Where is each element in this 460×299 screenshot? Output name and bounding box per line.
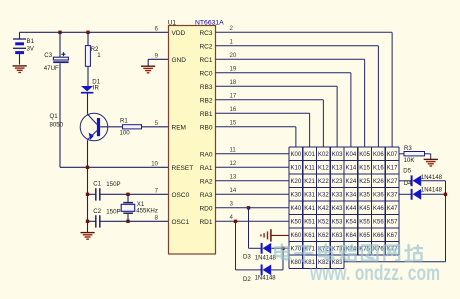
svg-text:1N4148: 1N4148 [421,187,443,193]
svg-text:150P: 150P [106,209,120,216]
svg-text:OSC0: OSC0 [172,192,190,199]
svg-text:K05: K05 [359,152,370,158]
svg-text:K13: K13 [332,166,343,172]
svg-text:K26: K26 [373,179,384,185]
svg-text:K52: K52 [318,220,329,226]
resistor R1 [120,117,169,136]
svg-text:IR: IR [93,85,100,92]
junction X1-OSC1 [126,220,129,223]
ground (R3) [424,159,438,166]
svg-text:K47: K47 [387,206,398,212]
svg-text:15: 15 [230,120,237,127]
capacitor C3 [44,32,69,167]
key row 4 labels K40-K47 [291,206,399,212]
diode D3 [243,243,289,262]
IC U1 left pin names and numbers [151,25,193,226]
svg-text:11: 11 [230,147,237,154]
svg-text:R1: R1 [120,117,128,124]
svg-text:K23: K23 [332,179,343,185]
svg-text:K56: K56 [373,220,384,226]
svg-text:K46: K46 [373,206,384,212]
svg-text:10: 10 [151,160,158,167]
wire RC2 to key column 6 [216,46,379,147]
diode D2 [243,265,283,284]
svg-text:K43: K43 [332,206,343,212]
key row 3 labels K30-K37 [291,193,399,199]
svg-text:3V: 3V [27,46,35,53]
svg-text:RA2: RA2 [200,178,213,185]
svg-text:12: 12 [230,160,237,167]
svg-text:K25: K25 [359,179,370,185]
svg-text:K31: K31 [304,193,315,199]
svg-text:K20: K20 [291,179,302,185]
svg-text:455KHz: 455KHz [136,207,158,214]
svg-text:14: 14 [230,187,237,194]
svg-text:K76: K76 [373,247,384,253]
svg-text:1N4148: 1N4148 [421,175,443,181]
junction RD0 branch [247,206,250,209]
wire RB1 to key column 1 [216,113,310,147]
wire GND pin [148,59,168,66]
svg-text:K17: K17 [387,166,398,172]
transistor Q1 [50,113,123,167]
svg-text:REM: REM [172,124,186,131]
svg-text:RC3: RC3 [199,30,212,37]
key row 1 labels K10-K17 [291,166,399,172]
svg-text:47UF: 47UF [44,65,59,72]
svg-text:RD0: RD0 [199,205,212,212]
key row 8 labels K80-K83 [291,260,344,266]
svg-text:K55: K55 [359,220,370,226]
wire ground rail [87,167,89,232]
svg-text:RB2: RB2 [200,97,213,104]
svg-text:K02: K02 [318,152,329,158]
junction RD1 branch [234,220,237,223]
key row 0 labels K00-K07 [291,152,399,158]
IC U1 right pin names and numbers [199,25,236,226]
svg-text:NT6631A: NT6631A [195,19,224,26]
svg-text:K03: K03 [332,152,343,158]
svg-text:16: 16 [230,106,237,113]
junction D4-D5 anodes [444,193,447,196]
capacitor C1 [88,181,169,201]
svg-text:RB3: RB3 [200,84,213,91]
wire RA0 to key row 0 [216,153,290,155]
junction D3-D2 anodes [281,247,284,250]
svg-text:17: 17 [230,93,237,100]
svg-text:K45: K45 [359,206,370,212]
wire D2 anode to node [282,248,284,270]
svg-text:K34: K34 [346,193,357,199]
svg-text:K67: K67 [387,233,398,239]
svg-text:OSC1: OSC1 [172,219,190,226]
svg-text:RC0: RC0 [199,70,212,77]
svg-text:1N4148: 1N4148 [255,276,277,282]
svg-text:K51: K51 [304,220,315,226]
svg-text:D3: D3 [243,254,251,261]
svg-text:K35: K35 [359,193,370,199]
junction C2-rail [86,220,89,223]
key row 2 labels K20-K27 [291,179,399,185]
svg-text:K64: K64 [346,233,357,239]
diode D5 [399,168,446,187]
svg-text:C2: C2 [93,208,101,215]
capacitor C2 [88,208,169,228]
svg-text:K04: K04 [346,152,357,158]
svg-text:K63: K63 [332,233,343,239]
wire RA3 to key row 3 [216,193,290,195]
svg-text:K21: K21 [304,179,315,185]
wire RC1 to key column 5 [216,59,365,147]
svg-text:K22: K22 [318,179,329,185]
svg-text:RA1: RA1 [200,165,213,172]
watermark [275,244,440,285]
diode D1 (IR LED) [81,78,101,113]
svg-text:K66: K66 [373,233,384,239]
ground (GND pin) [141,66,155,73]
svg-text:B1: B1 [27,38,35,45]
svg-text:Q1: Q1 [50,113,59,120]
wire RD1 to D2 [236,221,262,270]
svg-text:K36: K36 [373,193,384,199]
svg-text:K06: K06 [373,152,384,158]
svg-text:100: 100 [120,129,131,136]
svg-text:R3: R3 [404,145,412,152]
wire RA2 to key row 2 [216,180,290,182]
key matrix grid [289,147,399,268]
svg-text:K30: K30 [291,193,302,199]
wire RD0 to key row 4 [216,207,290,209]
svg-text:K16: K16 [373,166,384,172]
svg-text:RC1: RC1 [199,57,212,64]
wire RD1 to key row 5 [216,220,290,222]
svg-text:K32: K32 [318,193,329,199]
svg-text:RA0: RA0 [200,151,213,158]
junction C1-rail [86,193,89,196]
wire diode bus to key row 8 [344,181,446,262]
svg-text:K53: K53 [332,220,343,226]
svg-text:13: 13 [230,174,237,181]
wire RB0 to key column 0 [216,127,296,147]
svg-text:RD1: RD1 [199,219,212,226]
svg-text:10K: 10K [404,157,415,164]
svg-text:D4: D4 [404,180,412,187]
svg-text:150P: 150P [106,181,120,188]
wire RA1 to key row 1 [216,166,290,168]
svg-text:VDD: VDD [172,30,186,37]
junction node VDD-C3 [58,31,61,34]
svg-text:K11: K11 [305,166,316,172]
svg-text:RB0: RB0 [200,124,213,131]
svg-text:D2: D2 [243,276,251,283]
svg-text:RB1: RB1 [200,111,213,118]
wire RC3 to key column 7 [216,32,393,147]
svg-text:19: 19 [230,66,237,73]
svg-text:K61: K61 [304,233,315,239]
svg-text:1: 1 [97,52,101,59]
svg-text:RESET: RESET [172,165,194,172]
svg-text:K37: K37 [387,193,398,199]
resistor R3 [399,145,431,164]
svg-text:K50: K50 [291,220,302,226]
svg-text:K01: K01 [304,152,315,158]
svg-text:8050: 8050 [50,121,64,128]
svg-text:K00: K00 [291,152,302,158]
svg-text:K44: K44 [346,206,357,212]
svg-text:K41: K41 [304,206,315,212]
junction X1-OSC0 [126,193,129,196]
ground (key row 6) [261,229,289,241]
svg-text:K60: K60 [291,233,302,239]
svg-text:GND: GND [172,57,187,64]
svg-text:20: 20 [230,52,237,59]
svg-text:K54: K54 [346,220,357,226]
svg-text:K62: K62 [318,233,329,239]
diode D4 [399,180,446,200]
wire RC0 to key column 4 [216,73,351,147]
svg-text:K40: K40 [291,206,302,212]
svg-text:C3: C3 [44,52,52,59]
wire VDD rail [20,31,169,33]
svg-text:www. ondzz. com: www. ondzz. com [309,261,440,285]
svg-text:D5: D5 [403,168,411,175]
svg-text:RC2: RC2 [199,43,212,50]
key row 5 labels K50-K57 [291,220,399,226]
ground (battery negative) [13,66,27,73]
svg-text:K14: K14 [346,166,357,172]
svg-text:K10: K10 [291,166,302,172]
junction node VDD-R2 [86,31,89,34]
wire RB3 to key column 3 [216,86,338,147]
svg-text:K57: K57 [387,220,398,226]
junction emitter-RESET [86,166,89,169]
IC U1 NT6631A body [168,19,224,254]
key row 6 labels K60-K67 [291,233,399,239]
svg-text:U1: U1 [168,19,177,26]
svg-text:18: 18 [230,79,237,86]
svg-text:K65: K65 [359,233,370,239]
svg-text:C1: C1 [93,181,101,188]
svg-text:K15: K15 [359,166,370,172]
svg-text:1N4148: 1N4148 [255,256,277,262]
key row 7 labels K70-K77 [291,247,399,253]
svg-text:K12: K12 [318,166,329,172]
wire RB2 to key column 2 [216,100,324,147]
svg-text:K07: K07 [387,152,398,158]
svg-text:K33: K33 [332,193,343,199]
ground (oscillator rail) [81,233,95,240]
svg-text:K24: K24 [346,179,357,185]
svg-text:RA3: RA3 [200,192,213,199]
svg-text:K42: K42 [318,206,329,212]
wire RESET rail [60,166,169,168]
wire RD0 to D3 [249,208,262,249]
crystal X1 [121,194,158,221]
battery B1 [13,32,35,64]
resistor R2 [85,32,101,86]
svg-text:K27: K27 [387,179,398,185]
